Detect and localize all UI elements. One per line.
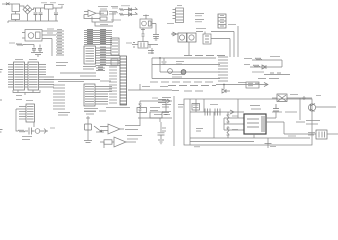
label right of chain — [50, 127, 55, 129]
labels osc out — [47, 29, 54, 33]
diode D8 below — [222, 85, 230, 94]
wire row1 arrow — [133, 8, 138, 10]
label above U7 — [250, 106, 261, 110]
label row 2 — [112, 12, 118, 14]
label TXD — [195, 14, 204, 16]
buzzer BZ1 — [140, 15, 159, 41]
transistor Q2 — [84, 116, 102, 143]
labels right inside box — [306, 121, 320, 125]
long wire row C — [160, 71, 220, 73]
text band row1 — [150, 81, 213, 83]
transistor Q1 block — [196, 32, 211, 45]
chain row D4 labels — [258, 78, 279, 80]
U7 pins right — [266, 112, 284, 134]
wire mic right — [287, 97, 312, 99]
wire horizontal y101 — [140, 100, 172, 102]
vertical bus connector J4 — [120, 56, 127, 105]
RAM U6 — [28, 62, 39, 90]
pin wires into U3 left — [56, 31, 64, 55]
resistor R5 — [100, 17, 107, 20]
box on x141 — [137, 108, 147, 113]
wire AC input — [2, 3, 12, 5]
wires left of IC — [224, 99, 244, 130]
ground X1 — [31, 53, 43, 57]
timer IC U7 — [244, 114, 266, 134]
label R2 — [9, 42, 15, 44]
resistor R4 — [100, 11, 108, 15]
diode pair top chain — [248, 83, 259, 86]
small IC U8 — [26, 104, 35, 122]
wire under U5 U6 — [13, 90, 40, 95]
labels right of box x141 — [150, 108, 160, 111]
vertical x166 — [165, 101, 167, 112]
feedback wire U2 — [84, 13, 113, 26]
diode D6 row2 — [126, 13, 133, 16]
wire LED right — [34, 122, 48, 134]
small box G — [246, 82, 259, 88]
inner bottom lines — [190, 138, 310, 142]
wire y38 right — [211, 39, 230, 58]
vertical x160 — [159, 58, 161, 72]
vertical x152 — [151, 58, 153, 79]
label right of R4 — [109, 12, 117, 15]
text band relay — [184, 55, 225, 57]
resistor R7 row2 — [119, 13, 126, 15]
outer wire left of box — [173, 96, 175, 146]
U3 right pin wires lower — [96, 67, 105, 71]
label R10 — [232, 115, 238, 117]
wire relay to right — [211, 26, 238, 57]
vertical x214 inside box — [213, 112, 215, 138]
labels above wire — [154, 114, 170, 116]
label RXD — [195, 20, 204, 22]
cap C12 — [162, 113, 169, 115]
switch S1 — [168, 69, 173, 74]
top rail +V — [32, 8, 58, 10]
op-amp A1 — [100, 124, 124, 134]
label 2704 — [100, 24, 108, 26]
chain row D3 — [264, 73, 290, 75]
wire under U3 long B — [80, 75, 96, 77]
resistor R2 — [16, 44, 26, 46]
ground stub row A — [162, 58, 167, 64]
wire battery to box — [284, 133, 316, 135]
relay K1 — [178, 33, 196, 42]
wire R2 to caps — [26, 44, 34, 46]
wire T1 to bridge — [20, 6, 25, 8]
wires oscillator right — [42, 31, 56, 56]
capacitor C4 — [32, 45, 36, 53]
labels A1 — [125, 126, 140, 130]
wire under U3 long C — [44, 79, 100, 81]
chain row D1 label — [244, 58, 252, 60]
small box mid — [150, 112, 162, 118]
label right of box top — [316, 95, 321, 97]
ground below box — [194, 146, 200, 148]
junction plus — [302, 96, 306, 100]
labels above relay — [196, 28, 206, 30]
label row 3 — [111, 19, 121, 21]
RN1 bottom labels — [84, 109, 98, 112]
op-amp A2 — [114, 137, 136, 147]
resistor R11 vertical — [227, 126, 230, 138]
transformer T1 — [12, 4, 20, 21]
text band row2 — [168, 85, 216, 87]
labels left of box — [162, 98, 171, 132]
LED D9 — [35, 129, 40, 134]
label left stub — [58, 113, 70, 116]
label row 1 — [112, 7, 118, 9]
pin label column A — [53, 85, 65, 109]
label above mic wire — [290, 94, 298, 96]
resistor network RN1 — [84, 84, 95, 106]
labels above y101 — [152, 97, 158, 99]
wire horizontal y90 — [128, 89, 172, 91]
left edge speck C — [0, 130, 3, 133]
fuse F1 — [6, 3, 10, 6]
label right of J3 — [228, 24, 236, 26]
capacitor C13 — [158, 122, 165, 144]
labels above U5 U6 — [15, 59, 37, 61]
wire inside box right — [299, 98, 301, 120]
long wire row A — [152, 57, 216, 59]
wire top chain — [216, 84, 268, 86]
junction dot row A — [159, 57, 161, 59]
CPU U3 — [84, 46, 96, 64]
transistor Q3 — [308, 104, 336, 112]
capacitor C3 — [54, 8, 58, 21]
left edge speck A — [0, 70, 3, 73]
wire label row — [296, 121, 305, 123]
wire relay down — [188, 42, 190, 55]
text inside box right — [272, 111, 297, 113]
capacitor C11 — [273, 104, 279, 111]
resistor R13 — [100, 140, 114, 148]
module box outline — [184, 99, 312, 145]
arrow end top chain — [264, 83, 268, 87]
left edge speck B — [0, 99, 2, 101]
chain row D2 label — [244, 64, 250, 66]
text band above Q2 — [84, 111, 106, 114]
connector J3 — [218, 14, 226, 28]
bus wires U5 U6 — [8, 65, 46, 88]
switch S2 — [181, 70, 186, 75]
capacitor C9 — [29, 128, 35, 135]
label under U5 — [16, 96, 22, 100]
label GND small — [167, 23, 174, 25]
long wire row D — [152, 78, 220, 80]
resistor R10 vertical — [227, 112, 230, 124]
labels bottom left — [22, 137, 32, 140]
diode D5 row1 — [126, 8, 133, 11]
resistor R6 row1 — [119, 9, 126, 11]
label left wire battery — [288, 135, 296, 137]
bus resistor fan above U3 — [84, 30, 112, 45]
label U8 — [26, 100, 33, 102]
wire row2 arrow — [133, 12, 138, 14]
latch U4 — [111, 38, 119, 55]
chain row D1 — [252, 57, 282, 68]
label band under U3 — [83, 67, 96, 70]
label on box left edge — [178, 105, 184, 108]
pin label texts left of U3 — [57, 30, 62, 54]
wire above ops — [138, 118, 172, 126]
labels on y90 — [142, 86, 168, 88]
RN1 wires right — [95, 87, 112, 105]
bus stubs right of U6 — [46, 77, 54, 87]
mic M1 — [272, 94, 287, 102]
wire under U3 long A — [60, 72, 96, 74]
ground rail power — [8, 21, 58, 23]
op-amp U2 — [84, 10, 104, 17]
label on top chain — [238, 82, 246, 84]
resistor R3 vertical — [141, 29, 145, 42]
labels left mid — [56, 63, 68, 66]
wires left of U8 — [19, 107, 26, 120]
U7 bottom pin — [253, 134, 255, 138]
label Mo inside box — [196, 129, 203, 132]
relay K2 inside box — [192, 104, 200, 111]
chain row D2 — [250, 65, 282, 69]
small box near J4 top — [111, 59, 118, 65]
resistor R15 on y101 — [158, 99, 170, 103]
U3 right pin wires upper — [96, 47, 121, 66]
resistor R14 vertical — [139, 101, 142, 118]
label 7805 — [41, 2, 56, 4]
label column U4 left — [109, 67, 117, 103]
band above box — [172, 90, 203, 93]
resistor R12 — [18, 130, 28, 132]
part bottom right — [265, 138, 277, 148]
capacitor C5 — [38, 45, 42, 53]
oscillator module X1 — [22, 30, 42, 42]
diode D7 — [171, 32, 178, 36]
label +5V arrow — [58, 5, 64, 9]
labels mid right 2 — [172, 75, 185, 78]
labels above op-amp — [98, 6, 130, 9]
label R11 — [232, 129, 238, 131]
chain row D3 label — [252, 71, 264, 73]
band under U3 bottom — [58, 80, 111, 83]
long wire row B — [152, 64, 220, 66]
wire Q2 to A1 — [96, 131, 104, 133]
header J2 — [173, 6, 184, 23]
wire center vertical x140 — [139, 84, 141, 90]
crystal Y1 — [132, 42, 158, 55]
capacitor C2 — [39, 8, 43, 21]
labels mid right — [176, 62, 184, 65]
label under J4 — [106, 107, 130, 109]
battery B1 — [308, 130, 338, 139]
EPROM U5 — [14, 62, 25, 90]
label left of Y1 — [126, 42, 132, 44]
junction dot top chain — [223, 84, 225, 86]
labels under A1 — [127, 136, 142, 140]
capacitor C1 — [34, 8, 38, 21]
right label column — [218, 57, 228, 81]
wire U8 down — [16, 109, 19, 131]
bridge rectifier D1 — [23, 5, 32, 21]
regulator U1 — [45, 5, 54, 22]
chain inside box top-left — [190, 99, 244, 116]
inner left line — [189, 99, 191, 145]
